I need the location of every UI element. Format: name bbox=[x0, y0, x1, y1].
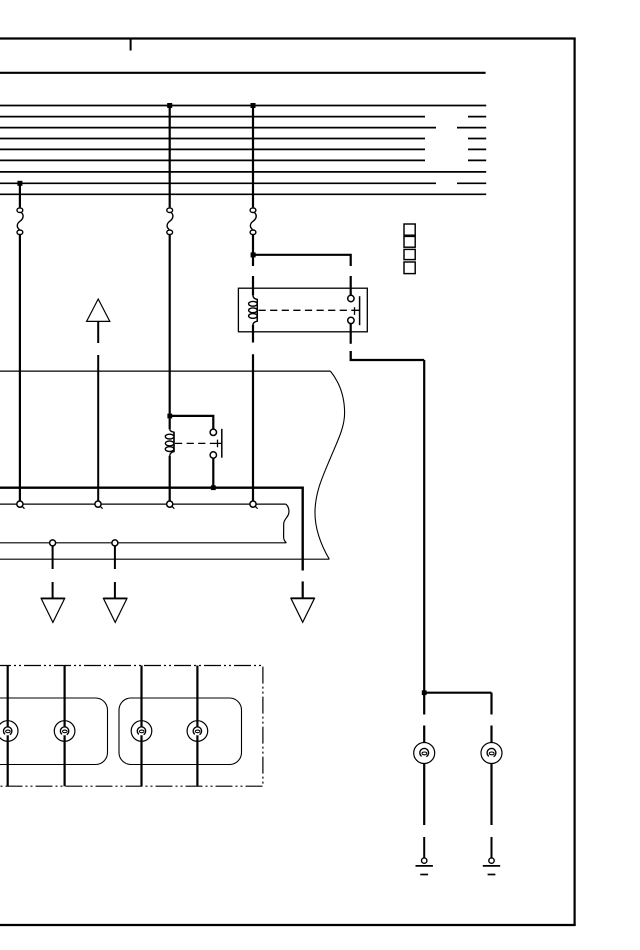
wire from node B to fuse F2 bbox=[169, 106, 171, 208]
wire from fuse F1 down to connector pin P1 bbox=[19, 235, 21, 502]
relay R1 coil bbox=[249, 295, 258, 324]
bus wire 9 bbox=[0, 193, 486, 195]
wire dash segment into relay R1 right bbox=[350, 276, 352, 295]
wire dash above ground triangle G2 bbox=[114, 582, 116, 598]
bus wire 7 bbox=[0, 171, 486, 173]
bus wire 4 bbox=[0, 138, 486, 140]
lamp wire 3 bbox=[140, 666, 142, 787]
wire from relay R1 coil down bbox=[252, 325, 254, 343]
lamp wire 2 bbox=[63, 666, 65, 787]
bulb L5 bbox=[414, 743, 435, 764]
wire below bulb L5 bbox=[423, 763, 425, 825]
frame tick mark bbox=[130, 39, 132, 51]
wire dash above bulb L6 bbox=[490, 726, 492, 743]
frame bottom border line bbox=[0, 924, 576, 926]
component outline torn wavy edge bbox=[315, 371, 345, 559]
relay R1 contact bar bbox=[359, 296, 361, 325]
lamp wire 4 bbox=[196, 666, 198, 787]
wire from node C to fuse F3 bbox=[252, 106, 254, 208]
relay R2 contact pin circle top bbox=[210, 429, 216, 435]
wire from node D to relay R1 contact (top right) bbox=[253, 255, 351, 266]
wire right branch down bbox=[490, 693, 492, 715]
connector squares block bbox=[404, 224, 415, 274]
wire dash above ground triangle G1 bbox=[52, 582, 54, 598]
junction node C on bus wire 1 bbox=[251, 103, 256, 108]
bulb L4 bbox=[187, 721, 208, 742]
header separator line bbox=[0, 72, 486, 74]
wire from fuse F3 to node D bbox=[252, 235, 254, 266]
bus wire 6 bbox=[0, 159, 486, 161]
wire from pin P5 down bbox=[52, 546, 54, 569]
wire dash above bulb L5 bbox=[423, 726, 425, 743]
connector strip torn right end bbox=[284, 504, 289, 543]
connector strip upper line bbox=[0, 503, 286, 505]
wire from relay R2 contact down to node G bbox=[212, 458, 214, 488]
relay R1 armature dashed link bbox=[259, 309, 353, 311]
ground G4 bbox=[416, 858, 433, 875]
wire from fuse F2 down to relay coil K2 bbox=[169, 235, 171, 430]
junction node E bbox=[422, 690, 427, 695]
wire from relay R1 contact down bbox=[350, 324, 352, 344]
bulb L1 bbox=[0, 721, 18, 742]
bulb L3 bbox=[131, 721, 152, 742]
lamp unit dash-dot boundary box bbox=[0, 666, 263, 787]
bus wire 2 bbox=[0, 116, 486, 118]
component outline bottom edge bbox=[0, 558, 329, 560]
wire dash above ground G5 bbox=[491, 837, 493, 858]
wire dash below relay R1 left then down to connector pin P4 bbox=[252, 354, 254, 501]
bus wire 5 bbox=[0, 148, 486, 150]
bus wire 3 bbox=[0, 127, 486, 129]
wire below bulb L6 bbox=[490, 763, 492, 825]
relay R2 armature dashed link bbox=[175, 442, 215, 444]
fuse F1 bbox=[17, 208, 23, 235]
wire from node F to relay R2 contact bbox=[170, 416, 214, 429]
bus wire 1 bbox=[0, 105, 486, 107]
power arrow symbol bbox=[87, 299, 110, 321]
component outline top edge (torn box) bbox=[0, 370, 330, 372]
connector pin P2 bbox=[95, 501, 101, 507]
wire from pin P6 down bbox=[114, 546, 116, 569]
junction node B on bus wire 1 bbox=[167, 103, 172, 108]
wire from node E down bbox=[423, 693, 425, 715]
relay R1 armature cross bbox=[352, 307, 359, 315]
ground triangle G2 bbox=[103, 598, 127, 622]
lamp cluster rounded housing left bbox=[0, 698, 108, 765]
relay R2 contact pin circle bottom bbox=[210, 452, 216, 458]
junction node F on coil wire bbox=[167, 414, 172, 419]
wire from node E to right lamp branch bbox=[424, 692, 491, 694]
junction node G bbox=[211, 485, 216, 490]
frame right border line bbox=[573, 39, 575, 926]
junction node A on bus wire 8 bbox=[17, 181, 22, 186]
junction node D bbox=[251, 252, 256, 257]
ground feed wire dash segment bbox=[302, 581, 304, 598]
connector pin P3 bbox=[167, 501, 173, 507]
wire from node A to fuse F1 bbox=[19, 183, 21, 207]
relay R1 box bbox=[238, 288, 367, 332]
wire below power arrow bbox=[97, 321, 99, 343]
ground triangle G1 bbox=[41, 598, 65, 622]
lamp cluster rounded housing right bbox=[119, 698, 242, 765]
bulb L2 bbox=[54, 721, 75, 742]
relay R2 contact bar bbox=[221, 429, 223, 458]
ground feed wire (thick, along y=487.7 turning down) bbox=[0, 488, 303, 571]
relay R1 contact pin circle top bbox=[348, 295, 354, 301]
lamp wire 1 bbox=[7, 666, 9, 787]
wire dash below power arrow down to connector pin P2 bbox=[97, 355, 99, 501]
ground triangle G3 bbox=[291, 598, 315, 622]
relay R2 coil bbox=[165, 429, 174, 456]
wire dash above ground G4 bbox=[423, 837, 425, 858]
ground G5 bbox=[483, 858, 500, 875]
wire dash segment into relay R1 left bbox=[252, 276, 254, 295]
connector pin P6 bbox=[112, 540, 118, 546]
fuse F2 bbox=[167, 208, 173, 235]
connector pin P1 bbox=[17, 501, 23, 507]
connector strip lower line bbox=[0, 542, 286, 544]
relay R2 armature cross bbox=[215, 440, 222, 448]
relay R1 contact pin circle bottom bbox=[348, 317, 354, 323]
wire right branch down to node E bbox=[423, 360, 425, 693]
frame top border line bbox=[0, 37, 576, 39]
connector pin P5 bbox=[50, 540, 56, 546]
bulb L6 bbox=[481, 743, 502, 764]
connector pin P4 bbox=[250, 501, 256, 507]
wire dash below relay R1 contact turning right bbox=[351, 351, 425, 360]
wire from relay R2 coil down to connector pin P3 bbox=[169, 456, 171, 501]
fuse F3 bbox=[250, 208, 256, 235]
bus wire 8 bbox=[0, 182, 486, 184]
